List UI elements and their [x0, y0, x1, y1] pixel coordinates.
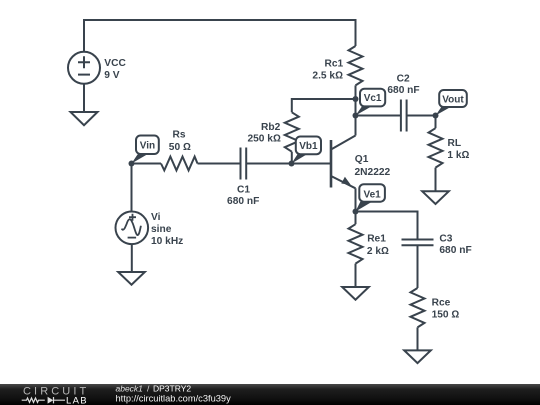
svg-text:10 kHz: 10 kHz — [151, 236, 183, 247]
svg-text:http://circuitlab.com/c3fu39y: http://circuitlab.com/c3fu39y — [116, 393, 232, 403]
capacitor C3 — [402, 240, 434, 246]
svg-text:DP3TRY2: DP3TRY2 — [153, 384, 191, 394]
node Vin dot — [129, 161, 135, 167]
node label Ve1 — [356, 184, 385, 211]
wire Vin to Vi source — [131, 164, 133, 212]
wire RL to ground — [435, 168, 437, 192]
svg-text:Vin: Vin — [140, 140, 155, 151]
footer bar — [0, 384, 540, 405]
svg-text:Q1: Q1 — [355, 154, 369, 165]
resistor Rb2 — [285, 112, 299, 151]
node label Vin — [132, 136, 159, 164]
svg-text:Rc1: Rc1 — [324, 59, 343, 70]
svg-text:Vi: Vi — [151, 212, 161, 223]
svg-text:1 kΩ: 1 kΩ — [447, 150, 469, 161]
node label Vc1 — [356, 89, 386, 116]
svg-text:abeck1: abeck1 — [116, 384, 144, 394]
wire C3 to Rce — [417, 245, 419, 288]
svg-text:2 kΩ: 2 kΩ — [367, 246, 389, 257]
resistor Rc1 — [349, 46, 363, 85]
voltage source VCC — [68, 52, 100, 84]
resistor RL — [429, 128, 443, 167]
svg-text:Vb1: Vb1 — [299, 141, 318, 152]
svg-text:LAB: LAB — [66, 395, 88, 405]
wire Rc1 to collector — [355, 85, 357, 135]
node Ve1 dot — [353, 209, 359, 215]
node label Vout — [436, 90, 467, 116]
node Vc1 dot — [353, 113, 359, 119]
wire Rb2 top to collector rail — [292, 99, 356, 112]
svg-text:Vc1: Vc1 — [364, 93, 382, 104]
wire VCC bottom — [83, 84, 85, 112]
svg-text:C2: C2 — [397, 73, 410, 84]
svg-text:2.5 kΩ: 2.5 kΩ — [312, 70, 343, 81]
svg-text:VCC: VCC — [104, 58, 126, 69]
wire Vin to Rs — [132, 163, 162, 165]
wire C1 to Vb1 — [246, 163, 291, 165]
svg-text:250 kΩ: 250 kΩ — [247, 134, 280, 145]
svg-text:Rs: Rs — [172, 130, 185, 141]
capacitor C1 — [241, 148, 247, 180]
wire Vb1 to Q1 base — [292, 163, 332, 165]
svg-text:50 Ω: 50 Ω — [169, 142, 191, 153]
wire Vc1 to C2 — [356, 115, 401, 117]
ground (Re1) — [342, 287, 369, 300]
svg-text:Rb2: Rb2 — [261, 122, 281, 133]
node Vb1 dot — [289, 161, 295, 167]
wire Vb1 up to Rb2 — [291, 152, 293, 164]
svg-text:Ve1: Ve1 — [363, 190, 381, 201]
svg-text:Rce: Rce — [432, 297, 451, 308]
svg-text:RL: RL — [448, 138, 462, 149]
svg-text:C3: C3 — [439, 234, 452, 245]
svg-text:Vout: Vout — [442, 94, 464, 105]
junction dots — [129, 96, 439, 215]
svg-text:2N2222: 2N2222 — [355, 167, 391, 178]
svg-text:680 nF: 680 nF — [439, 245, 471, 256]
svg-text:680 nF: 680 nF — [387, 85, 419, 96]
svg-text:C1: C1 — [237, 184, 250, 195]
wire Rs to C1 — [198, 163, 241, 165]
wire C2 to Vout — [407, 115, 436, 117]
node label Vb1 — [292, 137, 322, 164]
resistor Re1 — [349, 224, 363, 263]
wire Ve1 to Re1 — [355, 212, 357, 225]
capacitor C2 — [401, 100, 407, 132]
wire Vout to RL — [435, 116, 437, 129]
ground (RL) — [422, 191, 449, 204]
CircuitLab logo — [22, 386, 90, 405]
node Vout dot — [433, 113, 439, 119]
wire Ve1 to C3 — [356, 212, 418, 240]
svg-text:9 V: 9 V — [104, 70, 119, 81]
wire Vi bottom — [131, 244, 133, 272]
svg-text:sine: sine — [151, 224, 172, 235]
resistor Rs — [161, 157, 198, 171]
svg-text:Re1: Re1 — [367, 233, 386, 244]
svg-text:150 Ω: 150 Ω — [432, 310, 460, 321]
resistor Rce — [411, 288, 425, 327]
wire Rce to ground — [417, 327, 419, 350]
node Rb2/collector dot — [353, 96, 359, 102]
wire Re1 to ground — [355, 264, 357, 287]
svg-text:680 nF: 680 nF — [227, 196, 259, 207]
wire top rail VCC to Rc1 — [84, 20, 356, 52]
ground (Vi) — [118, 272, 145, 285]
ground (Rce) — [404, 350, 431, 363]
voltage source Vi — [116, 212, 149, 245]
transistor Q1 — [331, 136, 356, 212]
ground (VCC) — [71, 112, 98, 125]
